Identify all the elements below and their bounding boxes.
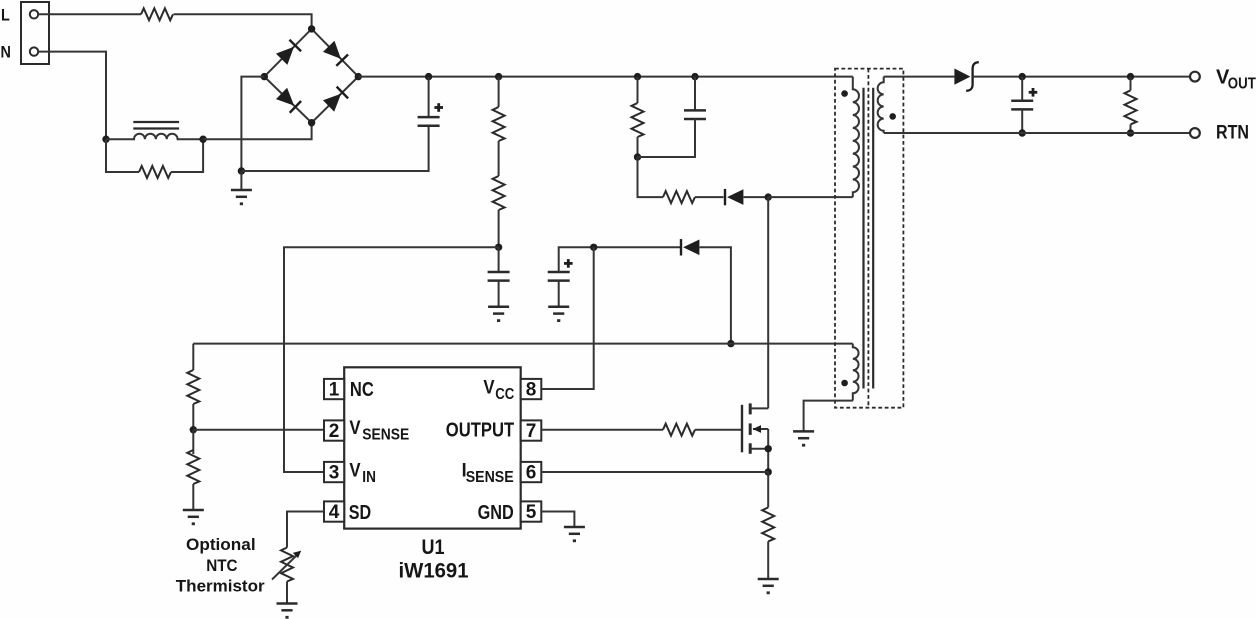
wire C3 top to VCC node <box>559 247 681 272</box>
capacitor C1 bulk <box>418 117 440 126</box>
node bulk cap top <box>425 73 432 80</box>
choke core lines <box>133 121 179 123</box>
wire drain node to primary bottom <box>768 196 853 198</box>
ground NTC <box>277 604 298 619</box>
ground divider <box>183 510 204 525</box>
pin 7 box <box>521 420 542 440</box>
wire VSENSE to pin2 <box>193 429 324 431</box>
wire aux bottom to ground <box>804 401 853 432</box>
MOSFET Q1 body arrow <box>753 428 768 430</box>
pin 6 box <box>521 462 542 482</box>
wire VIN node to C2 <box>498 247 500 272</box>
wire VOUT rail <box>973 76 1190 78</box>
bridge diode D3 (left to bottom) <box>276 88 301 113</box>
svg-text:IN: IN <box>362 469 376 486</box>
NTC thermistor RT1 <box>281 548 293 582</box>
wire minus stem <box>240 171 242 190</box>
wire VCC node to pin8 <box>541 247 593 389</box>
svg-text:NTC: NTC <box>206 556 237 575</box>
ground C3 <box>548 307 569 322</box>
svg-text:OUT: OUT <box>1228 75 1256 92</box>
wire VSENSE node to R7 <box>192 430 194 454</box>
svg-text:GND: GND <box>478 502 514 524</box>
wire VIN to pin3 <box>284 247 499 472</box>
capacitor C2 <box>488 272 510 281</box>
wire pin4 to NTC <box>287 512 324 548</box>
wire R9 to ground <box>767 541 769 579</box>
svg-text:RTN: RTN <box>1216 123 1249 144</box>
node R10 top <box>1127 73 1134 80</box>
node choke left <box>102 136 109 143</box>
primary winding <box>853 77 859 198</box>
svg-text:OUTPUT: OUTPUT <box>446 419 514 441</box>
svg-text:1: 1 <box>329 380 340 401</box>
svg-text:2: 2 <box>329 421 340 442</box>
IC U1 body <box>344 367 521 528</box>
node C5 top <box>1019 73 1026 80</box>
svg-text:6: 6 <box>526 463 537 484</box>
wire D6 to aux junction <box>700 247 731 343</box>
MOSFET Q1 drain lead <box>750 407 768 409</box>
ground pin5 <box>564 527 585 542</box>
diode D5 clamp <box>725 189 743 205</box>
wire R10 bottom <box>1130 124 1132 133</box>
node source <box>765 445 772 452</box>
wire drain vertical <box>767 197 769 408</box>
svg-text:V: V <box>349 418 360 439</box>
node DC minus <box>238 167 245 174</box>
node R10 bottom <box>1127 129 1134 136</box>
ground C2 <box>488 307 509 322</box>
wire bridge minus down <box>241 77 264 171</box>
pin 5 box <box>521 501 542 521</box>
wire rail to C4 <box>694 77 696 111</box>
wire snubber node down <box>638 157 664 197</box>
node bridge right <box>355 73 362 80</box>
wire DC plus rail <box>358 76 853 78</box>
svg-text:Thermistor: Thermistor <box>176 577 265 596</box>
wire fuse to bridge top <box>174 14 312 29</box>
wire secondary top to output diode <box>884 76 955 78</box>
wire R8 to gate <box>695 429 742 431</box>
resistor R1 choke damping <box>139 166 171 178</box>
bridge diode D2 (top to right) <box>323 41 348 66</box>
plus C3 <box>564 259 573 268</box>
pin 4 box <box>324 501 344 521</box>
resistor R5 clamp <box>663 191 695 203</box>
node VSENSE <box>190 426 197 433</box>
node ISENSE <box>765 468 772 475</box>
svg-text:L: L <box>1 5 10 24</box>
phase dot secondary <box>889 113 896 120</box>
wire body to source <box>767 429 769 472</box>
fuse F1 <box>141 8 173 20</box>
terminal VOUT <box>1190 72 1200 82</box>
node drain top <box>765 193 772 200</box>
resistor R6 divider top <box>187 370 199 404</box>
wire C4 to snubber node <box>638 119 696 157</box>
ground primary minus <box>231 190 252 205</box>
wire choke to bridge bottom <box>203 123 312 140</box>
aux winding <box>853 344 859 401</box>
wire choke left leg <box>106 139 139 172</box>
terminal block J1 <box>21 2 49 64</box>
capacitor C5 output <box>1011 101 1033 110</box>
pin 3 box <box>324 462 344 482</box>
wire damping resistor to right leg <box>171 139 203 172</box>
wire C5 bottom <box>1021 109 1023 133</box>
resistor R9 sense <box>762 507 774 541</box>
transformer core lines <box>862 88 864 389</box>
bridge rectifier BR1 frame <box>264 29 358 123</box>
wire rail to R2 <box>498 77 500 107</box>
svg-text:CC: CC <box>495 386 514 403</box>
svg-text:SENSE: SENSE <box>466 469 514 486</box>
wire aux sense <box>193 343 853 345</box>
node aux junction <box>727 340 734 347</box>
wire C2 to ground <box>498 281 500 307</box>
wire aux to divider <box>192 344 194 370</box>
node bridge bottom <box>308 119 315 126</box>
wire rail to R4 <box>637 77 639 103</box>
wire C5 top <box>1021 77 1023 101</box>
MOSFET Q1 source lead <box>750 448 768 450</box>
wire D5 to drain node <box>744 196 769 198</box>
svg-text:Optional: Optional <box>186 535 256 554</box>
wire R6 to VSENSE node <box>192 404 194 430</box>
wire NTC to ground <box>286 582 288 604</box>
wire pin7 to gate resistor <box>541 429 663 431</box>
NTC arrow <box>272 555 298 580</box>
wire RTN rail <box>884 132 1190 134</box>
node R2 top <box>495 73 502 80</box>
svg-text:3: 3 <box>329 463 340 484</box>
resistor R7 divider bottom <box>187 450 199 484</box>
output diode D7 <box>954 69 970 85</box>
svg-text:SENSE: SENSE <box>362 427 409 444</box>
wire R4 to snubber node <box>637 137 639 157</box>
plus C5 <box>1029 88 1038 97</box>
wire minus rail to bulk cap <box>241 126 428 171</box>
wire L to fuse <box>38 13 141 15</box>
bridge diode D4 (bottom to right) <box>323 87 348 112</box>
ground R9 <box>758 579 779 594</box>
plus C1 <box>434 103 443 112</box>
wire ISENSE to pin6 <box>541 471 768 473</box>
node C5 bottom <box>1019 129 1026 136</box>
phase dot aux <box>841 380 848 387</box>
pin 1 box <box>324 379 344 399</box>
resistor R8 gate <box>663 424 695 436</box>
node snubber R top <box>634 73 641 80</box>
resistor R2 <box>493 107 505 141</box>
svg-text:SD: SD <box>349 502 371 524</box>
wire pin5 to ground <box>541 512 574 528</box>
svg-text:8: 8 <box>526 380 537 401</box>
svg-text:V: V <box>483 377 494 398</box>
bridge diode D1 (left to top) <box>276 40 301 65</box>
resistor R3 <box>493 176 505 210</box>
node bridge left <box>261 73 268 80</box>
node snubber cap top <box>691 73 698 80</box>
terminal RTN <box>1190 128 1200 138</box>
svg-text:U1: U1 <box>422 536 445 559</box>
transformer T1 dashed box <box>835 69 903 408</box>
svg-text:V: V <box>349 460 360 481</box>
wire rail to bulk cap <box>428 77 430 118</box>
MOSFET Q1 channel segments <box>749 403 752 414</box>
node choke right <box>199 136 206 143</box>
svg-text:iW1691: iW1691 <box>399 560 469 583</box>
capacitor C4 snubber <box>684 110 706 119</box>
wire N down to choke node <box>38 52 106 140</box>
pin 2 box <box>324 420 344 440</box>
ground aux <box>793 431 814 446</box>
node snubber <box>634 153 641 160</box>
capacitor C3 VCC <box>548 272 570 281</box>
wire C3 to ground <box>558 281 560 307</box>
svg-text:5: 5 <box>526 502 537 523</box>
wire R3 to VIN node <box>498 210 500 247</box>
node VIN <box>495 244 502 251</box>
wire source to sense resistor <box>767 472 769 507</box>
node bridge top <box>308 25 315 32</box>
diode D6 VCC <box>681 239 699 255</box>
wire R7 to ground <box>192 484 194 510</box>
secondary winding <box>878 77 884 133</box>
svg-text:N: N <box>1 43 11 62</box>
inductor L1 choke winding <box>106 134 203 139</box>
transformer isolation dashed line <box>867 69 869 408</box>
resistor R4 snubber <box>632 103 644 137</box>
node VCC <box>590 244 597 251</box>
wire R5 to D5 <box>695 196 724 198</box>
wire R10 top <box>1130 77 1132 91</box>
svg-text:4: 4 <box>329 502 340 523</box>
pin 8 box <box>521 379 542 399</box>
svg-text:NC: NC <box>350 379 374 401</box>
MOSFET Q1 gate bar <box>741 405 743 453</box>
wire R2 to R3 <box>498 141 500 176</box>
phase dot primary <box>841 90 848 97</box>
svg-text:7: 7 <box>526 421 537 442</box>
resistor R10 load <box>1125 90 1137 124</box>
